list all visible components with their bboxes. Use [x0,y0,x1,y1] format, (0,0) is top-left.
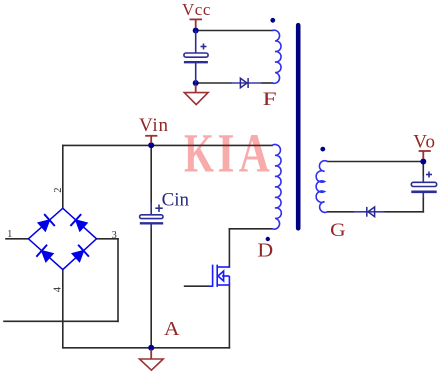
svg-text:F: F [263,89,277,110]
svg-text:G: G [330,220,346,241]
svg-text:Vin: Vin [139,115,169,136]
svg-text:3: 3 [112,230,117,241]
svg-text:D: D [257,240,273,262]
svg-text:A: A [239,122,270,183]
svg-text:4: 4 [53,286,64,292]
svg-text:Vo: Vo [413,131,436,152]
svg-text:Vcc: Vcc [182,0,211,19]
svg-text:2: 2 [53,188,64,193]
svg-text:1: 1 [7,229,12,240]
svg-text:A: A [164,318,180,340]
svg-text:I: I [218,122,235,183]
svg-text:K: K [184,122,214,183]
svg-text:Cin: Cin [162,189,190,210]
